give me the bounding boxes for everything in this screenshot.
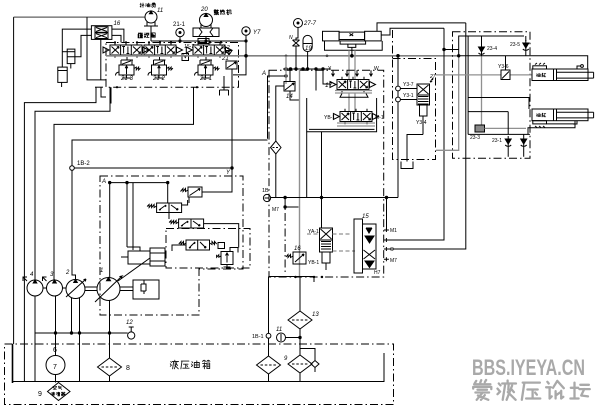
svg-text:20: 20 bbox=[200, 7, 208, 13]
port dots on bank top manifold bbox=[114, 41, 116, 43]
wires 16 to cylinders bbox=[62, 29, 91, 67]
pump 4 bbox=[27, 280, 43, 296]
solenoid valve YA-1 stack bbox=[320, 228, 333, 270]
filter diamond mid bbox=[271, 86, 285, 198]
check valve N bbox=[293, 40, 300, 69]
svg-text:W: W bbox=[374, 66, 379, 72]
wires from 16 to valve bank bbox=[112, 29, 124, 42]
svg-text:8: 8 bbox=[126, 365, 130, 372]
air breather 9 (diamond with text) bbox=[48, 383, 71, 401]
svg-text:Y3-4: Y3-4 bbox=[416, 120, 427, 126]
svg-text:3: 3 bbox=[50, 272, 54, 278]
drain manifold to gauge 12 bbox=[35, 332, 128, 334]
svg-text:Y3-1: Y3-1 bbox=[403, 93, 414, 99]
main spool valve 1 bbox=[110, 42, 142, 57]
filter 9b in tank bbox=[288, 355, 312, 373]
svg-text:16: 16 bbox=[294, 246, 301, 252]
relief 21-3 bbox=[116, 57, 141, 78]
svg-text:1: 1 bbox=[100, 268, 103, 274]
cooler motor 20 bbox=[193, 14, 219, 45]
servo valve bbox=[179, 240, 225, 250]
tank suction pipe bbox=[13, 353, 384, 382]
main spool valve 2 bbox=[144, 42, 176, 57]
compensator valve Va bbox=[147, 200, 188, 213]
port ticks right of frame C bbox=[384, 228, 389, 261]
svg-text:15-7: 15-7 bbox=[184, 44, 194, 50]
gauge Y7 bbox=[233, 27, 250, 75]
bottom check 23-1 bbox=[505, 136, 511, 148]
valve 16 (brake valve) bbox=[286, 252, 306, 264]
wire Y column bbox=[74, 167, 238, 278]
pilot relief Ra bbox=[181, 187, 203, 197]
gray pilot line to cyl 1 bbox=[436, 56, 533, 151]
svg-text:12: 12 bbox=[126, 320, 133, 326]
svg-text:13: 13 bbox=[312, 312, 319, 318]
gauge 11 bbox=[277, 333, 302, 342]
wire 16 drain down bbox=[100, 39, 102, 80]
accumulator 19 bbox=[303, 35, 312, 69]
block 15 bbox=[354, 219, 376, 273]
filter 8 in tank bbox=[98, 358, 122, 376]
check 21 + orifice on x=232 bbox=[220, 49, 238, 176]
frame B inner bbox=[166, 229, 250, 269]
svg-text:14: 14 bbox=[286, 94, 293, 100]
svg-text:27: 27 bbox=[429, 74, 436, 80]
svg-text:23-5: 23-5 bbox=[510, 42, 520, 48]
svg-text:21-3: 21-3 bbox=[120, 76, 134, 82]
tank outline bbox=[5, 344, 394, 405]
pilot valve 14 bbox=[284, 56, 398, 277]
svg-text:1B-2: 1B-2 bbox=[77, 161, 90, 167]
bypass check small diamond bbox=[300, 349, 319, 373]
svg-text:Y3-7: Y3-7 bbox=[403, 82, 414, 88]
pilot cylinder lower bbox=[58, 67, 67, 82]
gauge 12 bbox=[128, 327, 135, 339]
frame C bottom dots bbox=[294, 276, 296, 278]
valve 17 manifold bbox=[335, 91, 372, 112]
svg-text:9: 9 bbox=[38, 391, 42, 398]
port circles bbox=[396, 86, 417, 102]
relief 21-2 bbox=[148, 57, 173, 78]
shaft lines bbox=[43, 287, 47, 289]
pump 2 variable bbox=[66, 280, 85, 299]
svg-text:11: 11 bbox=[276, 327, 282, 333]
shuttle V bbox=[182, 54, 189, 61]
svg-text:4: 4 bbox=[30, 272, 34, 278]
double check valve 16 bbox=[91, 26, 112, 40]
svg-text:BBS.IYEYA.CN: BBS.IYEYA.CN bbox=[472, 355, 585, 380]
main pressure bus line bbox=[106, 55, 459, 57]
wires to frame bottom bbox=[101, 87, 194, 122]
valve Y3-6 bbox=[501, 56, 510, 80]
wire C pump3 column bbox=[54, 87, 194, 280]
pump 3 bbox=[47, 280, 63, 296]
connector box above valve 3 bbox=[198, 39, 209, 44]
wires below frame C bbox=[269, 277, 315, 334]
svg-text:9: 9 bbox=[284, 356, 288, 362]
wire top manifold y=41 bbox=[151, 40, 247, 44]
pilot cylinder upper bbox=[58, 17, 124, 87]
pump 1 variable main bbox=[97, 278, 120, 301]
svg-text:2: 2 bbox=[65, 270, 70, 276]
main spool valve 3 bbox=[193, 42, 225, 57]
charge pilot wire bbox=[14, 16, 146, 18]
valve 18 manifold bbox=[337, 123, 375, 126]
svg-text:15: 15 bbox=[362, 214, 369, 220]
wires from motor bbox=[245, 23, 466, 57]
gauge 1B-1 bbox=[266, 333, 271, 356]
motor housing bbox=[323, 31, 340, 41]
svg-text:M1: M1 bbox=[390, 228, 397, 234]
svg-text:Y: Y bbox=[226, 170, 231, 176]
Y W port arrows on frame top bbox=[332, 70, 373, 76]
tank inner left wall bbox=[12, 344, 14, 383]
svg-text:M7: M7 bbox=[272, 207, 279, 213]
svg-text:23-3: 23-3 bbox=[470, 135, 480, 141]
inner manifold lines bbox=[459, 36, 526, 134]
motor box bbox=[133, 280, 159, 299]
frame bottom junction dots bbox=[116, 86, 118, 88]
check valve 23-4 bbox=[479, 44, 485, 56]
filter 13 bbox=[288, 311, 312, 329]
svg-text:Y7: Y7 bbox=[253, 30, 261, 36]
svg-text:11: 11 bbox=[157, 8, 163, 14]
check valve 23-5 bbox=[523, 40, 529, 52]
svg-text:M-2: M-2 bbox=[221, 45, 230, 51]
svg-text:YB-1: YB-1 bbox=[308, 260, 319, 266]
svg-text:1B: 1B bbox=[262, 188, 269, 194]
svg-text:21-2: 21-2 bbox=[152, 76, 166, 82]
wire B pump4 column bbox=[35, 87, 110, 280]
pump2 drain + suction bbox=[71, 298, 73, 334]
svg-text:YB-1: YB-1 bbox=[324, 115, 335, 121]
svg-text:21-1: 21-1 bbox=[199, 76, 212, 82]
tap row wire bbox=[283, 68, 331, 91]
svg-text:27-7: 27-7 bbox=[303, 21, 317, 27]
svg-text:M7: M7 bbox=[390, 258, 397, 264]
valve 18 bbox=[340, 109, 372, 124]
valve Y3-4 stack bbox=[401, 78, 433, 169]
watermark 爱液压论坛 bbox=[473, 380, 491, 400]
svg-text:H7: H7 bbox=[374, 270, 381, 276]
return columns from manifold bbox=[307, 98, 398, 230]
svg-text:N: N bbox=[289, 35, 293, 41]
gauge 27-7 bbox=[294, 19, 303, 41]
pilot pressure valve in B bbox=[217, 248, 238, 270]
bottom check 23-2 bbox=[521, 136, 527, 148]
relief 21-1b bbox=[195, 57, 220, 78]
filter left in tank bbox=[257, 356, 281, 374]
svg-text:21: 21 bbox=[221, 56, 229, 62]
gauge 1B bbox=[263, 194, 321, 274]
wire A-port bbox=[268, 75, 288, 139]
svg-text:21-1: 21-1 bbox=[173, 22, 186, 28]
compensator valve Vb bbox=[169, 219, 204, 228]
wire 1B-2 pump2 column bbox=[72, 140, 268, 166]
svg-text:7: 7 bbox=[53, 364, 57, 371]
gauge circle 6/7 bbox=[46, 344, 65, 383]
svg-text:A: A bbox=[261, 71, 266, 77]
svg-text:A: A bbox=[101, 179, 106, 185]
swash actuator bbox=[118, 247, 165, 281]
wire A to tank bbox=[24, 87, 96, 381]
svg-text:1B-1: 1B-1 bbox=[252, 334, 264, 340]
pilot valve 23-3 bbox=[481, 56, 483, 125]
svg-text:Y: Y bbox=[328, 66, 332, 72]
svg-text:Y3-6: Y3-6 bbox=[498, 64, 509, 70]
svg-text:23-4: 23-4 bbox=[487, 46, 497, 52]
motor subplate bbox=[340, 41, 366, 44]
gauge 21-1 bbox=[176, 28, 184, 41]
svg-text:16: 16 bbox=[114, 21, 121, 27]
valve 17 bbox=[337, 77, 369, 92]
supply lines to cylinders bbox=[458, 55, 588, 109]
svg-text:23-1: 23-1 bbox=[492, 138, 502, 144]
pilot dashes from solenoid bbox=[307, 234, 355, 251]
svg-text:O: O bbox=[390, 247, 394, 253]
charge pump 11 bbox=[144, 11, 158, 41]
svg-text:19: 19 bbox=[305, 46, 312, 52]
gray pilot pair motor to valve 17 bbox=[349, 50, 355, 79]
svg-text:17: 17 bbox=[325, 82, 333, 89]
